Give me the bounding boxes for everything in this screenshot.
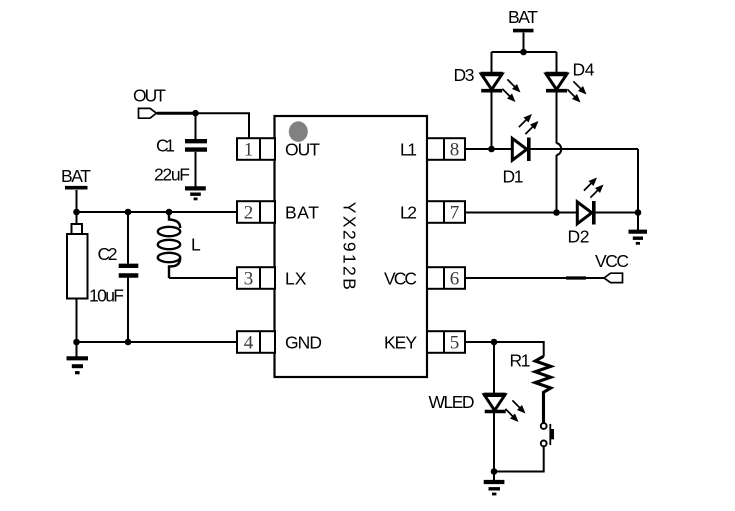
wire right corner down: [637, 149, 639, 213]
pin 3 box: [237, 267, 275, 289]
svg-text:6: 6: [450, 269, 460, 290]
svg-text:VCC: VCC: [384, 269, 417, 289]
inductor L: [158, 212, 180, 278]
node junction KEY: [491, 339, 498, 346]
svg-text:2: 2: [244, 203, 254, 224]
svg-text:WLED: WLED: [429, 392, 475, 412]
resistor R1: [535, 356, 551, 423]
pin 5 box: [427, 331, 465, 353]
svg-text:1: 1: [244, 140, 254, 161]
wire button to bottom rail: [494, 446, 544, 471]
svg-text:D2: D2: [568, 227, 590, 247]
svg-text:3: 3: [244, 269, 254, 290]
pin 1 box: [237, 138, 275, 160]
wire hop over L1 line: [557, 143, 562, 155]
wire battery cell top: [76, 212, 78, 224]
wire battery cell bottom: [76, 299, 78, 343]
op-amp U1 IC body YX2912B: [275, 116, 428, 377]
wire BAT top rail: [492, 51, 557, 53]
wire OUT thick stub: [157, 112, 193, 115]
wire OUT to pin 1: [157, 113, 250, 138]
pin 2 box: [237, 201, 275, 223]
wire pin 5 rail: [465, 342, 544, 357]
wire ground stem left: [76, 342, 78, 357]
svg-text:KEY: KEY: [384, 333, 417, 353]
battery terminal bar BAT left: [65, 186, 88, 190]
svg-text:C1: C1: [156, 136, 175, 156]
wire to D4: [556, 52, 558, 73]
ground below battery: [67, 358, 89, 372]
node junction bottom rail: [491, 468, 498, 475]
svg-text:OUT: OUT: [133, 86, 166, 106]
wire GND rail: [77, 341, 238, 343]
pin 4 box: [237, 331, 275, 353]
svg-text:L2: L2: [400, 203, 417, 223]
wire KEY to WLED: [493, 342, 495, 393]
wire BAT top stem: [523, 33, 525, 52]
LED D2 arrows: [584, 178, 604, 198]
wire C1 stem: [195, 113, 197, 139]
LED D1: [512, 138, 529, 162]
svg-text:8: 8: [450, 140, 460, 161]
svg-text:D3: D3: [454, 65, 475, 85]
node junction BAT top: [520, 49, 527, 56]
LED D3: [481, 74, 503, 91]
node junction D3/L1: [488, 146, 495, 153]
LED D3 arrows: [502, 79, 520, 102]
port connector VCC: [604, 273, 623, 282]
capacitor C2: [119, 266, 139, 276]
svg-text:22uF: 22uF: [154, 165, 190, 185]
wire ground stem bottom: [493, 472, 495, 481]
wire WLED to bottom rail: [493, 413, 495, 472]
port connector OUT: [139, 108, 157, 118]
wire D2 to right corner: [596, 212, 638, 214]
node junction D4/L2: [553, 209, 560, 216]
svg-text:L1: L1: [400, 140, 417, 160]
wire C2 stem bottom: [127, 278, 129, 343]
wire BAT stem: [76, 190, 78, 212]
svg-text:4: 4: [244, 333, 254, 354]
wire to D3: [491, 52, 493, 73]
svg-text:BAT: BAT: [61, 166, 91, 186]
capacitor C1: [185, 141, 207, 149]
pin-1 dot marker: [289, 121, 308, 142]
svg-text:L: L: [191, 235, 201, 255]
LED D1 arrows: [519, 114, 539, 134]
svg-text:VCC: VCC: [595, 251, 629, 271]
svg-text:OUT: OUT: [285, 140, 320, 160]
svg-text:BAT: BAT: [285, 203, 319, 223]
LED WLED: [484, 395, 506, 412]
wire ground stem right: [637, 213, 639, 231]
svg-text:BAT: BAT: [508, 7, 538, 27]
node junction BAT left: [73, 209, 80, 216]
svg-text:D4: D4: [573, 60, 595, 80]
wire D3 to L1 node: [491, 92, 493, 150]
ground right of D2: [629, 232, 648, 244]
pin 6 box: [427, 267, 465, 289]
pin 8 box: [427, 138, 465, 160]
wire pin 6 to VCC: [465, 277, 604, 279]
node junction L top: [166, 209, 173, 216]
svg-text:10uF: 10uF: [89, 286, 124, 306]
LED D4 arrows: [567, 81, 586, 102]
pushbutton SW1: [541, 423, 554, 446]
node junction right corner: [635, 209, 642, 216]
svg-text:GND: GND: [285, 333, 322, 353]
svg-text:LX: LX: [285, 269, 307, 289]
wire pin 7 to D2: [465, 212, 577, 214]
svg-text:5: 5: [450, 333, 460, 354]
wire pin 8 to D1: [465, 148, 512, 150]
pin 7 box: [427, 201, 465, 223]
svg-text:D1: D1: [503, 167, 524, 187]
node junction OUT/C1: [192, 110, 199, 117]
wire D4 down to hop: [556, 92, 558, 144]
node junction C2 top: [125, 209, 132, 216]
svg-text:7: 7: [450, 203, 460, 224]
wire BAT rail: [77, 211, 238, 213]
battery cell BT1: [67, 224, 88, 299]
LED D2: [577, 201, 594, 225]
wire D4 hop to L2 rail: [556, 155, 558, 213]
wire C1 to ground: [195, 152, 197, 187]
node junction bottom left: [73, 339, 80, 346]
svg-text:R1: R1: [510, 351, 531, 371]
wire VCC thick stub: [566, 276, 586, 279]
LED WLED arrows: [505, 400, 525, 422]
wire C2 stem top: [127, 212, 129, 264]
battery terminal bar BAT top: [513, 29, 534, 33]
ground below WLED: [484, 482, 505, 494]
node junction C2 bottom: [125, 339, 132, 346]
wire D1 to right corner: [531, 148, 638, 150]
LED D4: [546, 74, 568, 91]
wire L to pin 3: [169, 277, 237, 279]
ground below C1: [185, 188, 206, 199]
svg-text:C2: C2: [98, 244, 118, 264]
